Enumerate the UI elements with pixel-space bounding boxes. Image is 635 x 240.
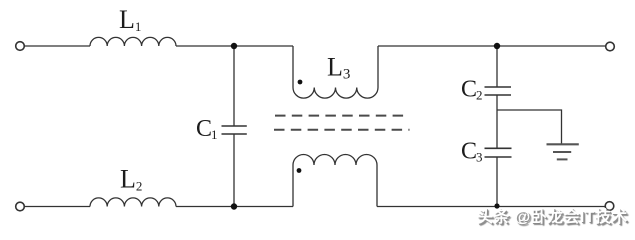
junction node top C2 — [494, 43, 500, 49]
polarity dot top coil — [298, 80, 303, 85]
svg-text:L2: L2 — [120, 165, 142, 194]
transformer L3 top coil — [293, 88, 378, 99]
inductor L1 — [90, 37, 176, 46]
wire C1 branch lower — [233, 134, 235, 207]
wire top-right rail — [378, 45, 606, 47]
transformer L3 bottom coil — [293, 155, 377, 166]
svg-text:C1: C1 — [196, 116, 218, 142]
wire C2 to C3 — [496, 95, 498, 148]
junction node bottom C3 — [494, 203, 499, 208]
capacitor C3 — [485, 148, 512, 157]
wire L1 to corner — [176, 45, 293, 47]
wire C3 to bottom rail — [496, 157, 498, 206]
capacitor C1 — [222, 126, 247, 134]
inductor L2 — [90, 198, 176, 207]
wire L3 bottom coil down to rail — [376, 165, 378, 207]
terminal bottom-left — [16, 202, 25, 211]
polarity dot bottom coil — [297, 168, 302, 173]
terminal top-left — [16, 42, 25, 51]
wire ground branch — [497, 110, 562, 144]
core dashed line lower — [274, 129, 410, 131]
terminal top-right — [606, 42, 615, 51]
wire corner up to L3 bottom coil — [292, 165, 294, 207]
ground — [547, 143, 579, 145]
junction node top C1 — [231, 43, 237, 49]
wire top-left — [25, 45, 91, 47]
wire bottom-left — [25, 206, 91, 208]
wire C2 branch upper — [496, 46, 498, 87]
wire corner down to L3 top coil — [292, 46, 294, 88]
wire bottom-right rail — [377, 206, 605, 208]
wire C1 branch upper — [233, 46, 235, 126]
svg-text:C3: C3 — [461, 139, 483, 165]
core dashed line upper — [275, 115, 409, 117]
wire L3 top coil up to rail — [377, 46, 379, 88]
watermark 头条@卧龙会IT技术 — [477, 203, 628, 227]
terminal bottom-right — [605, 202, 614, 211]
svg-text:L1: L1 — [119, 5, 141, 34]
junction node bottom C1 — [231, 203, 237, 209]
svg-text:C2: C2 — [461, 77, 483, 103]
wire L2 to corner — [176, 206, 293, 208]
capacitor C2 — [485, 87, 512, 95]
svg-text:L3: L3 — [327, 53, 350, 83]
